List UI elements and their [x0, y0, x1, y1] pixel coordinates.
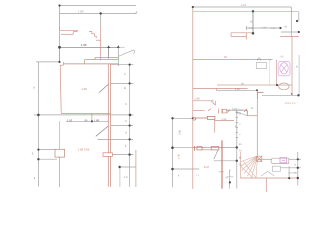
svg-text:1.10: 1.10 — [241, 4, 247, 7]
svg-text:0.70: 0.70 — [249, 27, 254, 30]
svg-text:B: B — [124, 87, 126, 90]
svg-text:AREA 9.8: AREA 9.8 — [285, 102, 296, 105]
svg-text:1.98: 1.98 — [194, 97, 200, 100]
svg-text:95: 95 — [84, 119, 88, 123]
svg-text:1.98: 1.98 — [262, 27, 267, 30]
svg-text:1.50: 1.50 — [67, 119, 73, 123]
svg-text:1.98: 1.98 — [81, 43, 87, 47]
svg-text:1.0: 1.0 — [124, 176, 128, 179]
svg-text:9.87: 9.87 — [204, 166, 210, 169]
svg-text:95: 95 — [224, 56, 227, 59]
svg-text:1.86: 1.86 — [94, 119, 100, 123]
svg-text:0.90: 0.90 — [222, 118, 227, 121]
svg-text:1.10: 1.10 — [232, 107, 237, 110]
svg-text:2.20: 2.20 — [235, 88, 241, 91]
svg-text:7.09: 7.09 — [78, 9, 84, 13]
svg-text:1.98 3.04: 1.98 3.04 — [78, 148, 90, 152]
svg-text:1.98: 1.98 — [178, 153, 181, 158]
svg-text:0.45: 0.45 — [271, 27, 276, 30]
svg-text:2.88: 2.88 — [179, 129, 182, 134]
svg-text:1.98: 1.98 — [81, 87, 87, 91]
